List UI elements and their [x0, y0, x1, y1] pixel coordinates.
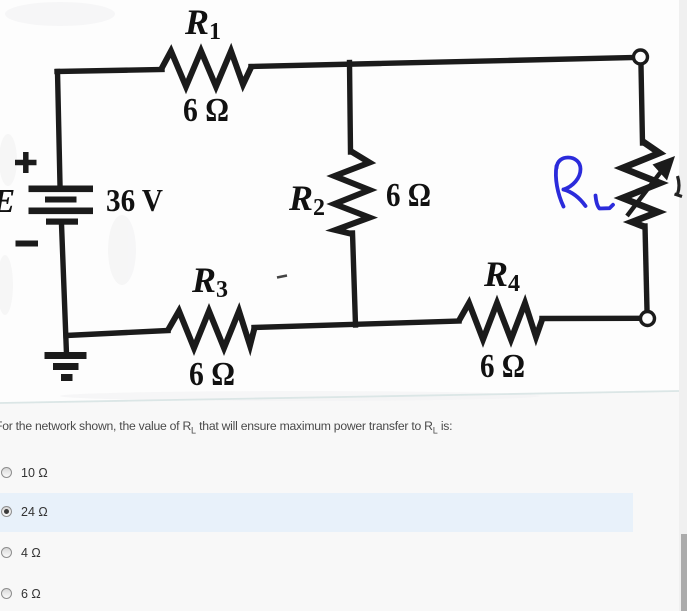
battery minus sign — [16, 241, 39, 247]
wire: R2 bottom to bottom rail — [353, 233, 356, 325]
svg-text:6 Ω: 6 Ω — [189, 356, 235, 393]
option 4: 6 Ohm — [1, 588, 12, 599]
svg-text:6 Ω: 6 Ω — [480, 348, 525, 385]
arrow of variable resistor RL — [627, 156, 675, 216]
svg-text:6 Ω: 6 Ω — [386, 177, 431, 214]
label RL (handwritten, blue) — [556, 158, 613, 209]
wire: top rail right segment (R1 to terminal a) — [251, 58, 634, 67]
terminal node a (top right, open circle) — [634, 50, 648, 64]
terminal node b (bottom right, open circle) — [641, 312, 655, 326]
wire: bottom rail left segment (junction to R3) — [66, 331, 168, 336]
ground — [45, 352, 87, 381]
pencil dash mark — [277, 276, 287, 278]
svg-text:E: E — [0, 183, 15, 220]
question text — [0, 419, 452, 435]
resistor R2 (zigzag) — [335, 151, 370, 234]
svg-text:6 Ω: 6 Ω — [183, 92, 229, 129]
wire: top-left vertical (source top to top rail) — [58, 72, 61, 186]
wire: right vertical lower (RL to terminal b) — [645, 226, 647, 310]
resistor RL (variable load, zigzag) — [623, 141, 661, 227]
cut-off character at scan edge — [675, 176, 683, 197]
wire: bottom rail right segment (R4 to terminal b) — [542, 316, 640, 322]
wire: R2 branch from top rail — [350, 63, 351, 153]
option 1: 10 Ohm — [1, 467, 12, 478]
option 3: 4 Ohm — [1, 547, 12, 558]
svg-text:36 V: 36 V — [106, 182, 163, 218]
battery plus sign — [15, 152, 37, 173]
scrollbar thumb — [681, 534, 687, 611]
scanned schematic image — [0, 0, 687, 412]
wire: right vertical upper (terminal a to RL) — [641, 66, 643, 144]
wire: battery negative to ground junction — [62, 224, 67, 354]
wire: top rail left segment — [57, 70, 162, 72]
scrollbar track — [679, 0, 687, 611]
resistor R1 (zigzag) — [161, 51, 252, 87]
scan paper background — [0, 0, 679, 403]
highlight of selected option — [0, 493, 633, 532]
battery E plates — [29, 186, 94, 225]
wire: bottom rail middle segment (R3 to R4) — [254, 321, 459, 328]
resistor R3 (zigzag) — [168, 311, 255, 348]
option 2: 24 Ohm (selected) — [1, 506, 12, 517]
resistor R4 (zigzag) — [459, 303, 543, 340]
